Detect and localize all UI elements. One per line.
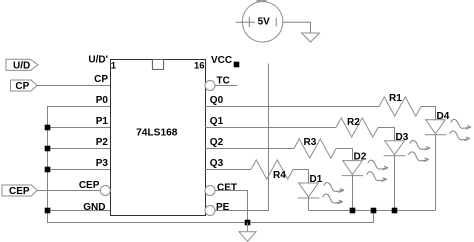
- wire TC stub: [215, 85, 237, 87]
- svg-text:1: 1: [111, 60, 117, 71]
- wire D2 cathode: [352, 176, 354, 211]
- bubble CEP: [100, 186, 110, 196]
- junction D2 rail: [350, 208, 356, 214]
- wire R3 to D2: [336, 149, 353, 161]
- wire P1: [48, 127, 111, 129]
- wire P0 / left bus / bottom ground wire / riser to LED rail: [48, 107, 374, 223]
- svg-text:74LS168: 74LS168: [136, 128, 178, 139]
- svg-text:U/D': U/D': [88, 55, 108, 66]
- svg-text:VCC: VCC: [211, 55, 232, 66]
- wire Q1 to R2: [205, 127, 336, 129]
- junction CET ground wire: [245, 220, 251, 226]
- svg-text:CP: CP: [94, 74, 108, 85]
- LED D3: [384, 132, 430, 162]
- resistor R1: [379, 97, 421, 116]
- wire D1 cathode: [308, 198, 310, 211]
- svg-text:R4: R4: [273, 170, 286, 181]
- svg-text:Q1: Q1: [210, 116, 224, 127]
- svg-text:TC: TC: [217, 75, 230, 86]
- svg-text:5V: 5V: [258, 17, 271, 28]
- wire R1 to D4: [421, 107, 436, 120]
- IC U1 74LS168 body: [111, 60, 206, 216]
- LED D2: [342, 152, 388, 182]
- svg-text:P0: P0: [96, 95, 109, 106]
- resistor R4: [251, 160, 293, 179]
- wire CEP port to U1 bubble: [37, 190, 100, 192]
- IC notch: [152, 60, 163, 70]
- svg-text:CET: CET: [217, 182, 237, 193]
- LED D1: [298, 174, 344, 204]
- LED D4: [425, 111, 471, 141]
- wire Q2 to R3: [205, 148, 294, 150]
- wire CP port to U1: [37, 85, 110, 87]
- junction P1 bus: [45, 125, 51, 131]
- bubble PE: [205, 206, 215, 216]
- wire R2 to D3: [378, 128, 395, 141]
- wire Q0 to R1: [205, 106, 379, 108]
- ground symbol top right: [302, 33, 320, 42]
- svg-text:CP: CP: [15, 81, 29, 92]
- svg-text:P3: P3: [96, 158, 109, 169]
- svg-text:Q2: Q2: [210, 137, 224, 148]
- svg-text:U/D: U/D: [13, 61, 30, 72]
- svg-text:CEP: CEP: [79, 180, 100, 191]
- svg-text:D3: D3: [396, 132, 409, 143]
- svg-text:CEP: CEP: [9, 186, 30, 197]
- junction ground riser rail: [371, 208, 377, 214]
- resistor R3: [294, 139, 336, 158]
- voltage source V1 5V: [236, 0, 283, 42]
- svg-text:D4: D4: [437, 111, 450, 122]
- svg-text:Q3: Q3: [210, 158, 224, 169]
- wire R4 to D1: [293, 170, 309, 184]
- junction GND bus: [45, 208, 51, 214]
- bubble CET: [205, 186, 215, 196]
- wire GND pin: [48, 210, 111, 212]
- svg-text:R2: R2: [347, 117, 360, 128]
- svg-text:D1: D1: [310, 174, 323, 185]
- wire P2: [48, 148, 111, 150]
- junction D3 rail: [392, 208, 398, 214]
- junction P2 bus: [45, 146, 51, 152]
- svg-text:R3: R3: [304, 137, 317, 148]
- wire V1 to ground: [283, 22, 311, 33]
- svg-text:GND: GND: [83, 202, 105, 213]
- port U/D: [6, 59, 38, 71]
- svg-text:D2: D2: [354, 152, 367, 163]
- svg-text:P1: P1: [96, 116, 109, 127]
- resistor R2: [336, 118, 378, 137]
- svg-text:P2: P2: [96, 137, 109, 148]
- ground symbol bottom: [239, 232, 256, 242]
- port CP: [11, 80, 38, 92]
- wire CET to ground: [215, 191, 248, 223]
- wire D4 cathode: [435, 135, 437, 211]
- wire P3: [48, 169, 111, 171]
- wire Q3 to R4: [205, 169, 251, 171]
- svg-text:R1: R1: [389, 93, 402, 104]
- svg-text:PE: PE: [216, 202, 230, 213]
- svg-text:Q0: Q0: [210, 95, 224, 106]
- wire PE to 5V rail: [215, 64, 269, 211]
- wire LED cathode rail: [309, 210, 436, 212]
- junction P3 bus: [45, 167, 51, 173]
- wire D3 cathode: [394, 156, 396, 211]
- svg-text:16: 16: [194, 60, 205, 71]
- VCC net square: [234, 62, 240, 68]
- bubble TC: [205, 81, 215, 91]
- port CEP: [2, 185, 37, 197]
- ground stub bottom: [247, 223, 249, 232]
